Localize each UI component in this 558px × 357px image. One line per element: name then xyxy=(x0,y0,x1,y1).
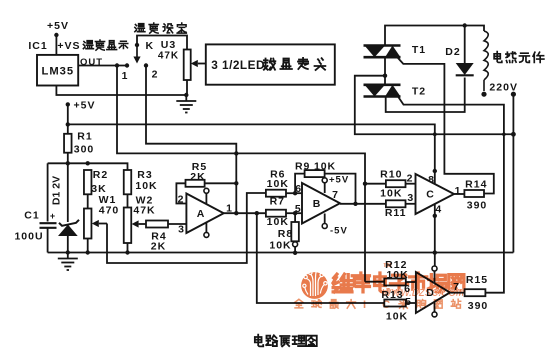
svg-text:2K: 2K xyxy=(151,241,166,253)
wire reference rail xyxy=(48,163,128,170)
svg-text:LM35: LM35 xyxy=(41,66,74,78)
svg-text:3: 3 xyxy=(178,223,185,235)
wire +5V to LM35 VS pin xyxy=(55,35,57,55)
switch wiper from K xyxy=(136,45,138,57)
node contact1 line junction xyxy=(234,151,238,155)
svg-text:-5V: -5V xyxy=(330,226,348,237)
svg-text:D2: D2 xyxy=(445,46,460,58)
wire T1 top to coil top xyxy=(385,26,484,46)
wire R10 to C pin 2 xyxy=(406,183,416,185)
B top supply pin +5V xyxy=(324,183,326,193)
svg-text:T2: T2 xyxy=(412,86,426,98)
wire T1 to T2 xyxy=(384,57,386,85)
node T1 T2 midpoint xyxy=(383,74,387,78)
wire midpoint to 220V line xyxy=(355,76,514,135)
svg-text:47K: 47K xyxy=(133,205,155,217)
wire R2 to W1 xyxy=(87,194,89,208)
potentiometer W2 47K xyxy=(124,208,132,244)
node W2 rail xyxy=(125,250,129,254)
svg-text:1: 1 xyxy=(122,70,129,82)
svg-text:2: 2 xyxy=(152,69,159,81)
label 温度设定 (temperature setting) xyxy=(135,24,145,32)
node 220V terminal left xyxy=(481,92,486,97)
svg-text:300: 300 xyxy=(74,144,95,156)
wire D1 to rail xyxy=(67,236,69,253)
potentiometer W1 470 xyxy=(84,209,92,239)
resistor R8 10K xyxy=(291,222,299,241)
svg-text:10K: 10K xyxy=(386,311,408,323)
wire R1 to reference node xyxy=(67,153,69,164)
A top supply pin xyxy=(205,193,207,204)
LED meter box 3 1/2LED xyxy=(206,44,335,84)
W2 wiper arrow xyxy=(132,220,139,227)
wire R12 to D pin 6 xyxy=(406,281,416,283)
resistor R12 10K xyxy=(384,279,406,286)
watermark row 全球最大IC采购网站 xyxy=(295,299,303,308)
node +5V mid xyxy=(66,102,70,106)
node U3 ground junction xyxy=(184,93,188,97)
node W1 rail xyxy=(86,250,90,254)
resistor R15 390 xyxy=(465,289,486,296)
resistor R11 10K xyxy=(386,200,406,207)
node +5V top xyxy=(54,33,58,37)
svg-text:C1: C1 xyxy=(24,210,39,222)
op-amp B xyxy=(302,183,340,224)
wire K bracket to U3 top xyxy=(137,36,187,50)
triac T2 xyxy=(364,84,401,87)
op-amp D xyxy=(416,272,450,313)
diode D2 xyxy=(464,26,466,64)
node C1 rail xyxy=(66,250,70,254)
node R5 output junction xyxy=(234,181,238,185)
wire B output to R11 xyxy=(340,203,386,205)
svg-text:TM: TM xyxy=(383,263,392,269)
node +5V rail junction xyxy=(66,122,70,126)
label 电热元件 (heating element) xyxy=(494,52,502,63)
svg-text:R11: R11 xyxy=(385,207,407,219)
node K switch common xyxy=(135,43,139,47)
resistor R13 10K xyxy=(384,300,406,307)
op-amp C xyxy=(416,174,455,214)
svg-text:T1: T1 xyxy=(412,44,426,56)
node R8 ground xyxy=(293,251,297,255)
wire U3 bottom to ground xyxy=(186,80,188,95)
svg-text:2: 2 xyxy=(178,194,185,206)
wire R13 to D pin 5 xyxy=(406,302,416,304)
node 220V line junction xyxy=(511,132,516,137)
wire D output to R15 xyxy=(450,292,465,294)
A bottom supply pin xyxy=(205,223,207,233)
svg-text:390: 390 xyxy=(467,200,488,212)
svg-text:A: A xyxy=(197,208,206,220)
resistor R2 3K xyxy=(84,170,92,194)
svg-text:3: 3 xyxy=(407,192,414,204)
resistor R1 300 xyxy=(64,134,72,153)
resistor R9 10K xyxy=(305,170,325,177)
svg-text:470: 470 xyxy=(99,205,120,217)
svg-text:R10: R10 xyxy=(380,169,402,181)
wire R5 to A output node xyxy=(205,182,237,184)
svg-text:4: 4 xyxy=(435,204,442,216)
wire R10 from vertical xyxy=(365,183,386,185)
svg-text:WWW.DZSC.COM: WWW.DZSC.COM xyxy=(382,288,465,299)
node gate line crossing xyxy=(502,132,506,136)
wire contact2 down to A output node xyxy=(146,66,236,214)
watermark logo circle xyxy=(301,272,328,299)
node B pin6 junction xyxy=(293,191,297,195)
svg-text:2: 2 xyxy=(407,172,414,184)
label 数显表头 (digital meter) xyxy=(264,59,275,70)
wire W2 to rail xyxy=(127,243,129,253)
node D2 anode xyxy=(463,23,467,27)
resistor R3 10K xyxy=(124,170,132,194)
C pin4 supply wire xyxy=(434,204,436,253)
svg-text:47K: 47K xyxy=(158,51,179,62)
node A output feedback junction xyxy=(234,211,238,215)
wire C1 to rail xyxy=(47,228,49,253)
svg-text:3 1/2LED: 3 1/2LED xyxy=(211,58,265,72)
svg-text:390: 390 xyxy=(468,300,489,312)
wire D1 branch xyxy=(67,163,69,222)
potentiometer U3 47K xyxy=(184,50,191,81)
svg-text:10K: 10K xyxy=(380,187,402,199)
wire A feedback to pin 2 xyxy=(176,183,186,203)
svg-text:C: C xyxy=(426,189,435,201)
resistor R7 10K xyxy=(266,210,286,217)
D top supply pin xyxy=(434,253,436,266)
W1 wiper arrow xyxy=(92,220,99,227)
svg-text:10K: 10K xyxy=(269,240,291,252)
wire R3 to W2 xyxy=(127,194,129,207)
svg-text:K: K xyxy=(146,40,155,52)
wire A output to R13 xyxy=(257,213,385,303)
wire LM35 OUT to switch contact 1 xyxy=(78,65,127,67)
svg-text:R15: R15 xyxy=(466,274,488,286)
svg-text:+VS: +VS xyxy=(57,40,80,52)
wire R7 to B pin 5 xyxy=(286,212,302,214)
wire +5V rail to op-amp C supply xyxy=(68,124,435,184)
resistor R10 10K xyxy=(386,180,406,187)
node +5V to C supply crossing xyxy=(433,132,437,136)
C pin4 supply dot xyxy=(433,214,437,218)
svg-text:I C: I C xyxy=(363,299,397,311)
resistor R4 2K xyxy=(146,221,168,228)
label 温度显示 (temperature display) xyxy=(83,41,93,49)
node opamp supply rail xyxy=(433,250,437,254)
IC1 LM35 temperature sensor xyxy=(37,55,78,86)
wire R6 to B pin 6 xyxy=(286,192,302,194)
svg-text:10K: 10K xyxy=(267,178,289,190)
svg-text:+5V: +5V xyxy=(329,175,349,186)
wire ground rail xyxy=(48,252,514,254)
wire R14 to T1 gate xyxy=(398,58,494,194)
wire R11 to C pin 3 xyxy=(406,203,416,205)
node B output junction xyxy=(353,202,357,206)
op-amp A xyxy=(186,194,223,234)
caption 电路原理图 (circuit schematic) xyxy=(255,335,263,347)
svg-text:R2: R2 xyxy=(93,169,108,181)
svg-text:10K: 10K xyxy=(135,180,157,192)
node R10 junction xyxy=(363,182,367,186)
resistor R5 2K xyxy=(186,180,205,187)
wire R9 to B output xyxy=(325,174,356,204)
wire LM35 GND down xyxy=(56,86,186,96)
B bottom supply pin -5V xyxy=(324,214,326,224)
svg-text:10K: 10K xyxy=(267,216,289,228)
zener diode D1 xyxy=(59,220,79,226)
D bottom supply pin xyxy=(434,302,436,312)
wire A output xyxy=(224,212,266,214)
capacitor C1 100U xyxy=(40,222,57,224)
node 220V terminal right xyxy=(511,92,516,97)
svg-text:R14: R14 xyxy=(465,179,487,191)
ground symbol left xyxy=(67,253,69,259)
node R2 top xyxy=(86,161,90,165)
wire R12 from node xyxy=(365,281,384,283)
wire R8 from pin5 xyxy=(294,213,296,222)
wire C output to R14 xyxy=(454,193,464,195)
svg-text:R7: R7 xyxy=(270,195,285,207)
wire T2 bottom to D2 cathode xyxy=(386,78,465,113)
watermark text 维库电子市场网 xyxy=(333,274,352,292)
C pin8 supply dot xyxy=(433,169,437,173)
svg-text:IC1: IC1 xyxy=(28,40,47,52)
wire contact1 down and right to node xyxy=(117,66,365,282)
U3 wiper arrow xyxy=(191,60,198,67)
svg-text:B: B xyxy=(313,198,322,210)
ground under U3 xyxy=(185,95,187,101)
node A output to R13 branch xyxy=(255,211,259,215)
heating element coil xyxy=(484,31,488,91)
node OUT branch xyxy=(115,63,119,67)
wire C1 branch top xyxy=(47,163,49,221)
resistor R6 10K xyxy=(266,190,286,197)
wire 220V right down to rail xyxy=(512,94,514,252)
svg-text:D1 2V: D1 2V xyxy=(51,176,63,205)
R8 bottom terminal ring xyxy=(293,242,298,247)
svg-text:1: 1 xyxy=(455,185,462,197)
svg-text:5: 5 xyxy=(295,203,302,215)
node switch contact 1 xyxy=(125,63,129,67)
wire R4 to op-amp A pin 3 xyxy=(168,223,186,225)
wire R15 to T2 gate xyxy=(398,97,504,293)
node R1 bottom xyxy=(66,161,70,165)
wire W1 wiper to R6 xyxy=(107,193,266,263)
svg-text:U3: U3 xyxy=(161,39,176,51)
node B pin5 junction xyxy=(293,211,297,215)
svg-text:100U: 100U xyxy=(14,231,43,243)
wire +5V node down xyxy=(67,104,69,133)
triac T1 xyxy=(364,44,401,47)
wire R9 from pin6 xyxy=(295,174,305,194)
svg-text:+: + xyxy=(50,211,56,221)
resistor R14 390 xyxy=(464,190,484,197)
svg-text:R1: R1 xyxy=(77,131,92,143)
node switch contact 2 xyxy=(144,63,148,67)
svg-text:+5V: +5V xyxy=(47,20,69,32)
wire W1 to rail xyxy=(87,239,89,253)
svg-text:7: 7 xyxy=(332,189,339,201)
svg-text:+5V: +5V xyxy=(74,100,96,112)
